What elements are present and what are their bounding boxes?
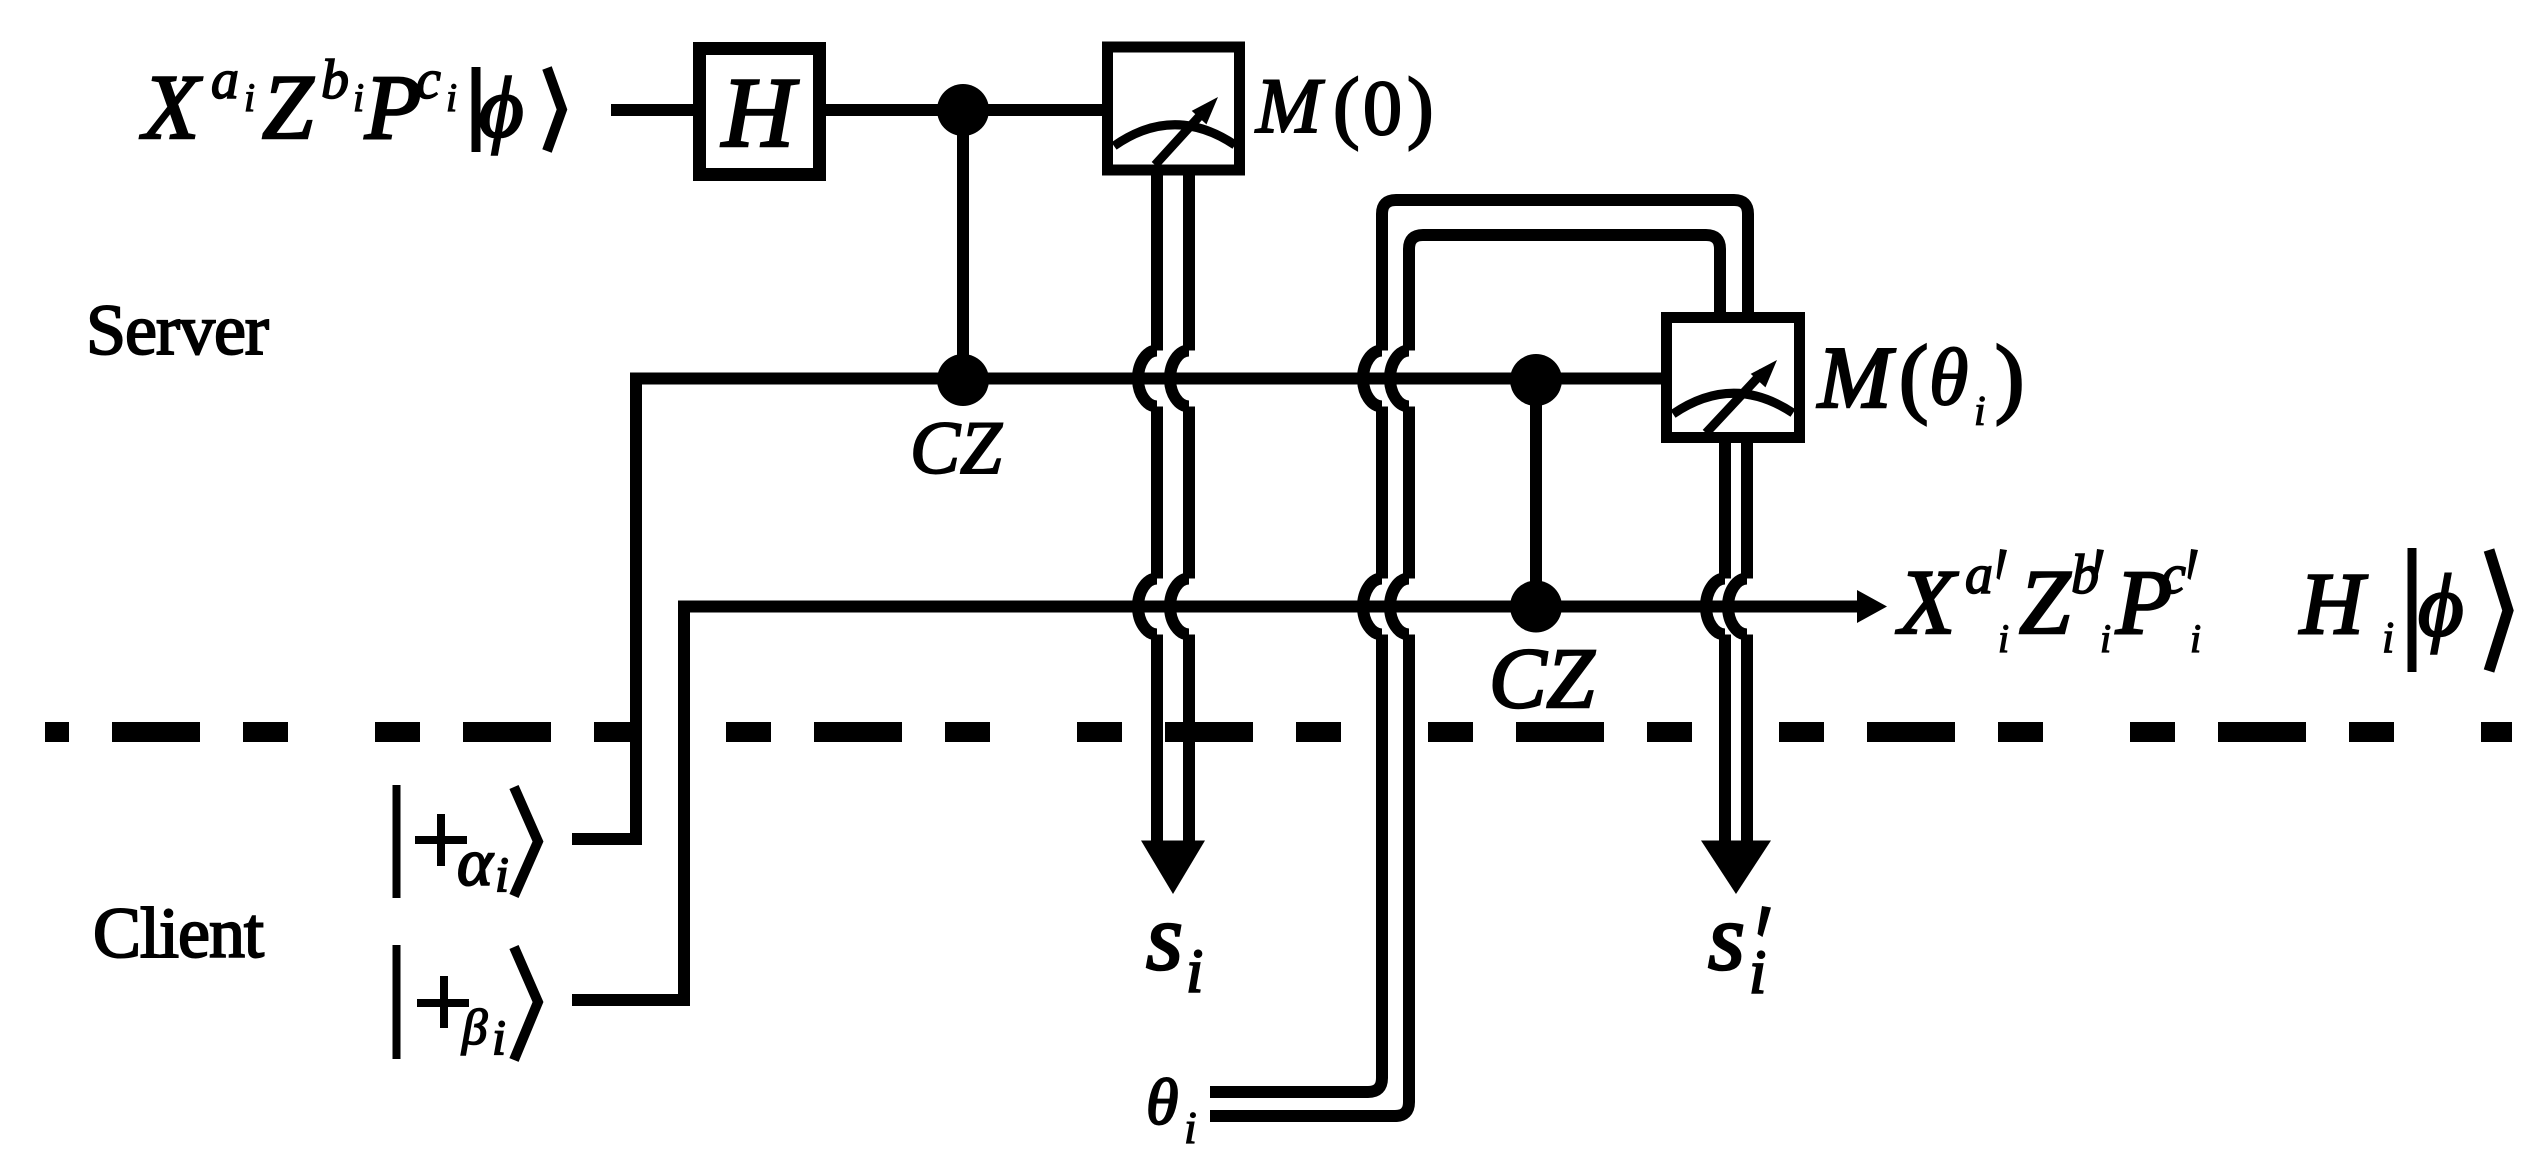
ket rangle of output state xyxy=(2489,550,2508,671)
svg-text:i: i xyxy=(1184,1102,1197,1153)
wire qubit3 from +beta riser and horizontal xyxy=(572,607,1860,1001)
svg-text:M: M xyxy=(1816,330,1896,427)
svg-text:P: P xyxy=(364,56,421,158)
svg-text:i: i xyxy=(1974,389,1986,435)
label s_i xyxy=(1146,884,1203,1006)
svg-text:i: i xyxy=(446,75,457,120)
svg-text:H: H xyxy=(2299,556,2368,653)
plus sign of +alpha xyxy=(415,836,467,844)
label M(theta_i) xyxy=(1816,329,2024,435)
svg-text:Server: Server xyxy=(86,290,269,370)
classical double line s_i left xyxy=(1151,175,1163,841)
CZ1 vertical link xyxy=(957,110,969,380)
theta double line outer: horizontal, riser, top loop into M(theta) xyxy=(1210,200,1748,1092)
svg-text:α: α xyxy=(457,824,494,900)
wire qubit1 H to M(0) xyxy=(826,104,1102,116)
measurement box M(theta_i) xyxy=(1667,318,1800,438)
svg-text:i: i xyxy=(495,846,509,902)
CZ2 vertical link xyxy=(1530,380,1542,607)
svg-text:): ) xyxy=(1407,63,1434,151)
svg-text:s: s xyxy=(1146,884,1183,990)
theta_i label xyxy=(1146,1066,1197,1153)
arrowhead s_i xyxy=(1141,841,1205,895)
svg-text:i: i xyxy=(492,1009,506,1065)
hop arcs s_i over wire2 xyxy=(1138,351,1189,407)
ket |+beta_i> label xyxy=(461,1000,506,1065)
svg-text:c: c xyxy=(2161,544,2186,606)
svg-text:β: β xyxy=(461,1000,488,1056)
meter needle arrowhead M(0) xyxy=(1192,90,1226,124)
svg-text:X: X xyxy=(1895,551,1959,653)
hop arcs theta over wire3 xyxy=(1363,579,1409,635)
svg-text:M: M xyxy=(1255,62,1325,149)
prime of s_i' xyxy=(1758,906,1772,937)
dashed separation line server/client xyxy=(45,722,2512,742)
svg-text:s: s xyxy=(1708,884,1745,990)
svg-text:b: b xyxy=(321,49,349,111)
svg-text:i: i xyxy=(353,75,364,120)
classical double line s_i' right xyxy=(1741,443,1753,841)
CZ1 control dot bottom xyxy=(937,354,989,406)
plus sign of +beta xyxy=(417,999,469,1007)
label M(0) xyxy=(1255,62,1434,151)
svg-text:θ: θ xyxy=(1146,1066,1178,1139)
svg-text:ϕ: ϕ xyxy=(479,59,524,155)
wire qubit1 input segment xyxy=(611,104,693,116)
svg-text:a: a xyxy=(1965,544,1993,606)
output arrowhead qubit3 xyxy=(1857,590,1887,623)
label input state X^ai Z^bi P^ci |phi> xyxy=(139,49,524,158)
svg-text:ϕ: ϕ xyxy=(2418,558,2464,655)
measurement box M(0) xyxy=(1108,47,1240,170)
svg-text:): ) xyxy=(1995,329,2024,426)
svg-text:(: ( xyxy=(1333,63,1360,151)
hop arcs theta over wire2 xyxy=(1363,351,1409,407)
svg-text:θ: θ xyxy=(1929,334,1968,422)
ket rangle of input state xyxy=(547,68,562,151)
prime of b' xyxy=(2094,549,2105,580)
arrowhead s_i' xyxy=(1701,841,1771,895)
svg-text:CZ: CZ xyxy=(1489,630,1595,726)
CZ2 control dot top xyxy=(1510,354,1562,406)
CZ1 control dot top xyxy=(937,84,989,136)
prime of c' xyxy=(2188,549,2199,580)
svg-text:X: X xyxy=(139,56,203,158)
svg-text:i: i xyxy=(244,75,255,120)
svg-text:a: a xyxy=(211,49,239,111)
output state label X^a'i Z^b'i P^c'i H_i |phi> xyxy=(1895,544,2464,662)
H gate box xyxy=(700,49,820,175)
meter arc M(theta) xyxy=(1673,393,1793,414)
svg-text:i: i xyxy=(2382,613,2394,662)
ket bar of +alpha xyxy=(393,785,401,898)
svg-text:H: H xyxy=(720,57,799,168)
svg-text:Z: Z xyxy=(2019,551,2071,653)
svg-text:i: i xyxy=(1749,939,1766,1007)
svg-text:Z: Z xyxy=(262,56,314,158)
CZ2 control dot bottom xyxy=(1510,581,1562,633)
svg-text:Client: Client xyxy=(93,893,264,973)
label s_i' xyxy=(1708,884,1766,1007)
meter needle M(0) xyxy=(1155,109,1206,165)
meter arc M(0) xyxy=(1114,125,1235,146)
ket bar of +beta xyxy=(393,945,401,1059)
wire qubit2 from +alpha riser and horizontal xyxy=(572,379,1661,840)
svg-text:(: ( xyxy=(1899,329,1928,426)
rangle of +alpha xyxy=(514,787,538,896)
svg-text:0: 0 xyxy=(1363,64,1402,151)
hop arcs s_i over wire3 xyxy=(1138,579,1189,635)
svg-text:i: i xyxy=(2190,616,2201,661)
ket |+alpha_i> label xyxy=(457,824,509,902)
svg-text:i: i xyxy=(1998,616,2009,661)
meter needle M(theta) xyxy=(1706,372,1763,433)
classical double line s_i' left xyxy=(1719,443,1731,841)
svg-text:i: i xyxy=(1186,938,1203,1006)
ket bar of input state xyxy=(472,67,481,152)
svg-text:c: c xyxy=(416,49,441,111)
classical double line s_i right xyxy=(1183,175,1195,841)
rangle of +beta xyxy=(514,947,538,1060)
hop arcs s_i' over wire3 xyxy=(1706,579,1747,635)
svg-text:i: i xyxy=(2100,616,2111,661)
theta double line inner: horizontal, riser, top loop into M(theta) xyxy=(1210,235,1720,1116)
svg-text:CZ: CZ xyxy=(910,407,1003,490)
ket bar of output state xyxy=(2408,548,2417,672)
prime of a' xyxy=(1997,549,2008,580)
meter needle arrowhead M(theta) xyxy=(1751,353,1785,387)
